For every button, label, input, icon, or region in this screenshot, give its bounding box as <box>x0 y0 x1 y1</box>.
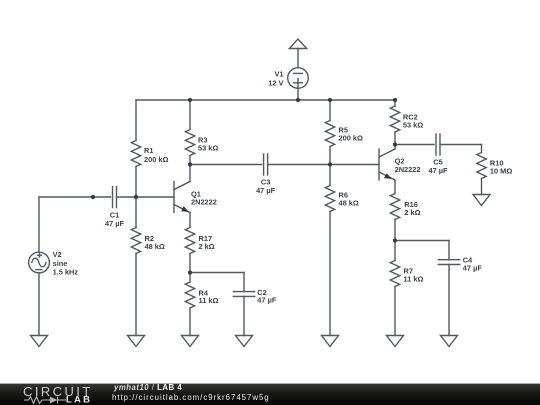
svg-text:11 kΩ: 11 kΩ <box>404 274 424 283</box>
svg-text:48 kΩ: 48 kΩ <box>145 242 165 251</box>
svg-text:http://circuitlab.com/c9rkr674: http://circuitlab.com/c9rkr67457w5g <box>112 393 270 402</box>
svg-text:200 kΩ: 200 kΩ <box>144 155 168 164</box>
svg-text:LAB: LAB <box>66 395 92 405</box>
svg-text:12 V: 12 V <box>268 78 283 87</box>
svg-text:53 kΩ: 53 kΩ <box>198 144 218 153</box>
svg-text:11 kΩ: 11 kΩ <box>199 296 219 305</box>
svg-text:2 kΩ: 2 kΩ <box>199 242 215 251</box>
svg-text:2 kΩ: 2 kΩ <box>404 208 420 217</box>
svg-text:ymhat10 / LAB 4: ymhat10 / LAB 4 <box>113 383 182 392</box>
svg-text:47 µF: 47 µF <box>105 219 125 228</box>
svg-text:R1: R1 <box>144 146 153 155</box>
svg-text:2N2222: 2N2222 <box>395 165 421 174</box>
svg-text:2N2222: 2N2222 <box>191 198 217 207</box>
svg-text:1.5 kHz: 1.5 kHz <box>53 267 79 276</box>
svg-text:47 µF: 47 µF <box>463 263 483 272</box>
svg-text:200 kΩ: 200 kΩ <box>339 133 363 142</box>
svg-text:10 MΩ: 10 MΩ <box>490 166 512 175</box>
svg-text:47 µF: 47 µF <box>256 186 276 195</box>
svg-text:47 µF: 47 µF <box>257 296 277 305</box>
svg-text:53 kΩ: 53 kΩ <box>403 120 423 129</box>
svg-text:47 µF: 47 µF <box>428 166 448 175</box>
svg-text:48 kΩ: 48 kΩ <box>339 198 359 207</box>
svg-text:V1: V1 <box>274 70 283 79</box>
